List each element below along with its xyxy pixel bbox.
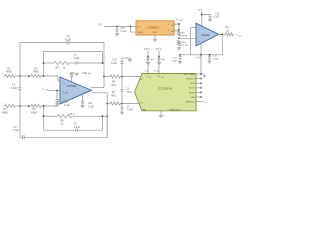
svg-text:12nF: 12nF bbox=[127, 91, 133, 94]
svg-text:0.1µF: 0.1µF bbox=[64, 105, 71, 107]
svg-text:499Ω: 499Ω bbox=[31, 111, 37, 114]
svg-text:OUT_F: OUT_F bbox=[171, 25, 175, 27]
svg-text:OUT: OUT bbox=[238, 35, 241, 37]
svg-text:499Ω: 499Ω bbox=[2, 111, 8, 114]
svg-text:499Ω: 499Ω bbox=[33, 71, 39, 74]
svg-text:4.7µF: 4.7µF bbox=[13, 129, 20, 132]
svg-text:41.2Ω: 41.2Ω bbox=[182, 45, 188, 47]
svg-text:DNB: DNB bbox=[142, 109, 147, 111]
svg-text:C13: C13 bbox=[173, 57, 178, 59]
svg-text:BUSY: BUSY bbox=[189, 92, 195, 94]
svg-text:1k: 1k bbox=[61, 123, 64, 126]
svg-text:499Ω: 499Ω bbox=[182, 36, 188, 38]
svg-text:1k: 1k bbox=[63, 66, 66, 69]
svg-text:R10: R10 bbox=[182, 42, 187, 44]
svg-text:3.3nF: 3.3nF bbox=[127, 109, 134, 112]
svg-text:C17: C17 bbox=[213, 55, 218, 57]
svg-text:1Ω: 1Ω bbox=[226, 30, 229, 32]
svg-text:C11: C11 bbox=[64, 102, 69, 104]
svg-text:3.3nF: 3.3nF bbox=[111, 62, 118, 65]
svg-text:CNV: CNV bbox=[190, 97, 195, 99]
svg-text:0.1µF: 0.1µF bbox=[121, 31, 128, 33]
svg-text:−2.5 V: −2.5 V bbox=[68, 114, 75, 116]
svg-text:R5: R5 bbox=[55, 66, 59, 69]
svg-text:5 V: 5 V bbox=[198, 8, 202, 12]
svg-text:DD: DD bbox=[157, 71, 159, 73]
svg-text:1µF: 1µF bbox=[151, 59, 155, 61]
svg-text:C14: C14 bbox=[121, 28, 126, 30]
svg-text:V: V bbox=[176, 18, 178, 21]
svg-text:49.9: 49.9 bbox=[111, 84, 116, 87]
svg-text:3.3µF: 3.3µF bbox=[88, 106, 95, 108]
svg-text:47µF: 47µF bbox=[172, 60, 178, 62]
svg-text:SDI/SDO: SDI/SDO bbox=[186, 79, 195, 81]
svg-text:−: − bbox=[2, 101, 4, 105]
svg-text:REF/DGC: REF/DGC bbox=[185, 102, 195, 104]
svg-text:LTC6655-5: LTC6655-5 bbox=[147, 27, 159, 29]
svg-text:49.9: 49.9 bbox=[111, 94, 116, 97]
svg-text:REF/DGND: REF/DGND bbox=[170, 109, 181, 111]
svg-text:6.8nF: 6.8nF bbox=[11, 87, 18, 90]
svg-text:C16: C16 bbox=[215, 13, 220, 15]
svg-text:2.5 V: 2.5 V bbox=[144, 48, 150, 51]
svg-text:R17: R17 bbox=[225, 27, 230, 29]
svg-text:C12: C12 bbox=[88, 103, 93, 105]
svg-text:OUT_S: OUT_S bbox=[171, 31, 175, 33]
svg-text:R9: R9 bbox=[182, 33, 186, 35]
svg-text:LTC6363: LTC6363 bbox=[67, 85, 77, 88]
svg-text:2.2µF: 2.2µF bbox=[73, 57, 80, 60]
svg-text:5 V: 5 V bbox=[98, 22, 102, 26]
svg-text:GND: GND bbox=[153, 32, 158, 34]
svg-text:SHDN: SHDN bbox=[138, 32, 144, 34]
svg-text:INA240: INA240 bbox=[202, 34, 210, 37]
svg-text:DD: DD bbox=[146, 71, 148, 73]
svg-text:1µF: 1µF bbox=[162, 59, 166, 61]
svg-text:V: V bbox=[236, 34, 238, 37]
svg-text:−0.4 V: −0.4 V bbox=[195, 57, 202, 59]
svg-text:SCKI: SCKI bbox=[190, 83, 195, 85]
svg-text:SCKO: SCKO bbox=[189, 88, 195, 90]
svg-text:499Ω: 499Ω bbox=[6, 71, 12, 74]
svg-text:+: + bbox=[143, 78, 144, 80]
svg-text:IO: IO bbox=[206, 103, 208, 105]
svg-text:0.1µF: 0.1µF bbox=[86, 73, 92, 75]
svg-text:0.1µF: 0.1µF bbox=[213, 58, 219, 60]
svg-text:2.5 V: 2.5 V bbox=[156, 48, 162, 51]
svg-text:2.2µF: 2.2µF bbox=[74, 126, 81, 129]
svg-text:4.7µF: 4.7µF bbox=[65, 39, 72, 42]
svg-text:LTC2380-24: LTC2380-24 bbox=[158, 87, 173, 91]
svg-text:0.1µF: 0.1µF bbox=[214, 17, 221, 19]
svg-text:−: − bbox=[144, 101, 145, 103]
svg-text:OV: OV bbox=[157, 76, 161, 78]
svg-text:REF CHAIN: REF CHAIN bbox=[184, 73, 196, 76]
svg-text:+: + bbox=[2, 71, 4, 75]
svg-text:REF: REF bbox=[180, 20, 183, 22]
